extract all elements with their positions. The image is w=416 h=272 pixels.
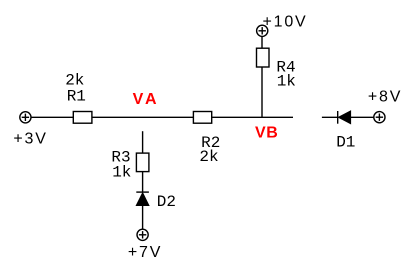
wire R2 to node VB and end [212,116,293,118]
svg-text:2k: 2k [199,148,218,166]
diode D1 [338,111,351,124]
wire VB side to D1 cathode [322,116,338,118]
svg-text:+3V: +3V [13,130,47,147]
svg-text:1k: 1k [112,163,131,181]
resistor R2 [193,112,211,124]
resistor R3 [136,153,149,172]
terminal +10V [257,25,268,36]
terminal +8V [374,112,385,123]
wire VA down to R3 [142,131,144,153]
svg-text:R1: R1 [67,88,86,106]
wire D1 anode to +8V terminal [351,116,374,118]
wire R3 to D2 [142,172,144,193]
svg-text:D2: D2 [157,193,176,211]
svg-text:VB: VB [255,125,278,142]
resistor R1 [73,112,92,124]
wire +3V terminal to R1 [31,116,73,118]
terminal +7V [137,229,148,240]
resistor R4 [257,48,270,67]
svg-text:+8V: +8V [368,89,402,106]
wire R1 to R2 (node VA) [92,116,193,118]
svg-text:+10V: +10V [263,14,308,31]
wire R4 to +10V terminal [261,37,263,49]
svg-text:1k: 1k [277,73,296,91]
wire R4 branch down to node VB [261,67,263,117]
svg-text:D1: D1 [336,133,355,151]
svg-text:+7V: +7V [128,244,162,261]
diode D2 [136,192,149,205]
terminal +3V [20,112,31,123]
wire D2 to +7V terminal [142,206,144,230]
svg-text:VA: VA [133,91,160,108]
